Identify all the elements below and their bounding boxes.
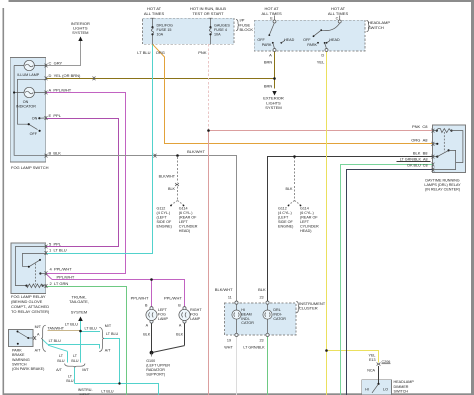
svg-text:LEFT: LEFT: [300, 220, 310, 224]
svg-text:BLU: BLU: [57, 359, 65, 363]
svg-text:LT GRN/BLK: LT GRN/BLK: [243, 346, 265, 350]
svg-text:HI: HI: [365, 387, 369, 391]
svg-text:A/T: A/T: [56, 368, 62, 372]
svg-text:BLK: BLK: [143, 332, 151, 336]
svg-text:HEADLAMP: HEADLAMP: [394, 380, 415, 384]
svg-text:G112: G112: [157, 207, 166, 211]
svg-text:TEST OR START: TEST OR START: [192, 11, 224, 16]
svg-text:SYSTEM: SYSTEM: [71, 309, 87, 314]
svg-text:DAYTIME RUNNING: DAYTIME RUNNING: [425, 179, 459, 183]
svg-text:A/T: A/T: [35, 349, 41, 353]
svg-text:SIDE OF: SIDE OF: [278, 220, 293, 224]
svg-text:RADIATOR: RADIATOR: [146, 368, 165, 372]
svg-text:G114: G114: [179, 207, 188, 211]
svg-text:OFF: OFF: [30, 132, 38, 136]
svg-text:(6 CYL.): (6 CYL.): [300, 211, 314, 215]
svg-text:E PPL: E PPL: [49, 113, 62, 118]
svg-text:LT BLU: LT BLU: [49, 339, 61, 343]
svg-text:RIGHT: RIGHT: [190, 308, 202, 312]
svg-text:BLK/WHT: BLK/WHT: [215, 287, 233, 292]
svg-text:ENGINE): ENGINE): [157, 225, 172, 229]
svg-text:TAILGATE,: TAILGATE,: [69, 299, 89, 304]
svg-text:(REAR OF: (REAR OF: [300, 216, 318, 220]
svg-text:HEAD): HEAD): [300, 229, 311, 233]
svg-text:INSTRU-: INSTRU-: [78, 388, 94, 392]
svg-text:HEAD): HEAD): [179, 229, 190, 233]
svg-text:SIDE OF: SIDE OF: [157, 220, 172, 224]
svg-text:LT GRN/BLK A8: LT GRN/BLK A8: [400, 158, 428, 162]
svg-text:BLU: BLU: [66, 379, 74, 383]
svg-text:PARK: PARK: [262, 43, 272, 47]
svg-text:FUSE 15: FUSE 15: [157, 28, 172, 32]
svg-text:PPL/WHT: PPL/WHT: [131, 295, 149, 300]
svg-text:BRN: BRN: [264, 59, 273, 64]
svg-text:GAUGES: GAUGES: [214, 24, 230, 28]
svg-text:PARK: PARK: [12, 348, 22, 352]
svg-text:10A: 10A: [157, 33, 164, 37]
svg-text:LAMPS (DRL) RELAY: LAMPS (DRL) RELAY: [424, 183, 461, 187]
svg-text:BLK: BLK: [176, 332, 184, 336]
svg-text:WHT: WHT: [224, 346, 233, 350]
svg-text:M/T: M/T: [105, 324, 112, 328]
svg-text:CYLINDER: CYLINDER: [300, 225, 319, 229]
svg-text:CATOR: CATOR: [241, 321, 254, 325]
svg-text:BLK: BLK: [168, 187, 176, 191]
svg-text:M/T: M/T: [82, 368, 89, 372]
svg-text:PPL/WHT: PPL/WHT: [164, 295, 182, 300]
svg-text:LT BLU: LT BLU: [101, 389, 113, 393]
svg-text:BLK B8: BLK B8: [413, 150, 428, 155]
svg-text:CLUSTER: CLUSTER: [299, 306, 318, 311]
svg-text:YEL: YEL: [369, 353, 376, 357]
svg-text:11: 11: [228, 296, 232, 300]
svg-text:BRAKE: BRAKE: [12, 353, 25, 357]
svg-text:LAMP: LAMP: [190, 317, 201, 321]
svg-text:SYSTEM: SYSTEM: [265, 105, 281, 110]
svg-text:2 LT GRN: 2 LT GRN: [50, 281, 69, 286]
svg-text:10A: 10A: [214, 33, 221, 37]
svg-text:C GRY: C GRY: [49, 60, 63, 65]
svg-text:LO: LO: [383, 387, 388, 391]
svg-text:A/T: A/T: [105, 349, 111, 353]
svg-text:INDICATOR: INDICATOR: [16, 105, 36, 109]
svg-text:(LEFT: (LEFT: [278, 216, 289, 220]
svg-text:ENGINE): ENGINE): [278, 225, 293, 229]
svg-text:DIMMER: DIMMER: [394, 385, 409, 389]
svg-text:HEAD: HEAD: [329, 38, 340, 42]
svg-text:23: 23: [259, 296, 263, 300]
svg-text:LT BLU: LT BLU: [106, 332, 118, 336]
svg-text:WARNING: WARNING: [12, 358, 30, 362]
svg-text:YEL: YEL: [317, 59, 325, 64]
svg-text:ON: ON: [32, 117, 38, 121]
svg-text:ORG A8: ORG A8: [411, 138, 428, 143]
svg-text:BLK: BLK: [258, 287, 266, 292]
svg-text:LEFT: LEFT: [158, 308, 168, 312]
svg-text:SWITCH: SWITCH: [368, 25, 384, 30]
svg-text:SWITCH: SWITCH: [12, 363, 27, 367]
svg-text:FOG: FOG: [190, 313, 198, 317]
svg-text:BLU: BLU: [71, 359, 79, 363]
svg-text:PPL/WHT: PPL/WHT: [57, 274, 75, 279]
svg-text:A: A: [269, 53, 272, 58]
svg-text:G112: G112: [278, 207, 287, 211]
svg-text:OFF: OFF: [257, 38, 265, 42]
svg-text:23: 23: [259, 339, 263, 343]
svg-text:TO RELAY CENTER): TO RELAY CENTER): [11, 309, 50, 314]
svg-text:LAMP: LAMP: [158, 317, 169, 321]
svg-text:1 LT BLU: 1 LT BLU: [49, 248, 67, 253]
svg-text:BLK/WHT: BLK/WHT: [187, 149, 205, 154]
svg-text:CYLINDER: CYLINDER: [179, 225, 198, 229]
svg-text:(LEFT UPPER: (LEFT UPPER: [146, 363, 170, 367]
svg-text:G100: G100: [146, 359, 155, 363]
svg-text:BRN: BRN: [264, 84, 273, 89]
svg-text:ALL TIMES: ALL TIMES: [328, 11, 349, 16]
svg-text:(LEFT: (LEFT: [157, 216, 168, 220]
svg-text:(4 CYL.): (4 CYL.): [278, 211, 292, 215]
svg-text:ALL TIMES: ALL TIMES: [144, 11, 165, 16]
svg-text:FOG LAMP SWITCH: FOG LAMP SWITCH: [11, 165, 49, 170]
svg-text:FUSE 4: FUSE 4: [214, 28, 227, 32]
svg-text:NCA: NCA: [367, 369, 375, 373]
svg-text:LT BLU: LT BLU: [85, 327, 97, 331]
svg-text:4 PPL/WHT: 4 PPL/WHT: [50, 266, 73, 271]
svg-text:OFF: OFF: [303, 38, 311, 42]
svg-text:C: C: [336, 17, 339, 21]
svg-text:TAN/WHT: TAN/WHT: [48, 326, 65, 330]
svg-text:PNK: PNK: [198, 50, 207, 55]
svg-text:BLK/WHT: BLK/WHT: [159, 175, 176, 179]
svg-text:E13: E13: [369, 358, 376, 362]
svg-text:HEAD: HEAD: [284, 38, 295, 42]
svg-text:A PPL/WHT: A PPL/WHT: [49, 87, 72, 92]
svg-text:D YEL (OR BRN): D YEL (OR BRN): [49, 73, 82, 78]
svg-text:19: 19: [227, 339, 231, 343]
svg-text:FOG: FOG: [158, 313, 166, 317]
svg-text:SWITCH: SWITCH: [394, 389, 409, 393]
svg-text:LT BLU: LT BLU: [137, 50, 150, 55]
svg-text:SUPPORT): SUPPORT): [146, 372, 165, 376]
svg-text:PARK: PARK: [307, 43, 317, 47]
svg-text:DRL/FOG: DRL/FOG: [157, 24, 174, 28]
svg-text:(REAR OF: (REAR OF: [179, 216, 197, 220]
svg-text:(IN RELAY CENTER): (IN RELAY CENTER): [425, 188, 460, 192]
svg-text:M/T: M/T: [35, 325, 42, 329]
svg-text:5 PPL: 5 PPL: [49, 241, 62, 246]
svg-text:(6 CYL.): (6 CYL.): [179, 211, 193, 215]
svg-text:BLK: BLK: [286, 187, 294, 191]
svg-text:ILLUM LAMP: ILLUM LAMP: [17, 73, 39, 77]
svg-text:ORG: ORG: [156, 50, 165, 55]
svg-text:BLOCK: BLOCK: [240, 27, 254, 32]
svg-text:DK BLU C8: DK BLU C8: [407, 163, 427, 167]
svg-text:(4 CYL.): (4 CYL.): [157, 211, 171, 215]
svg-text:ON: ON: [23, 100, 29, 104]
svg-text:G114: G114: [300, 207, 309, 211]
svg-text:LT BLU: LT BLU: [65, 322, 78, 327]
svg-text:ALL TIMES: ALL TIMES: [261, 11, 282, 16]
svg-text:PNK C8: PNK C8: [412, 124, 428, 129]
svg-text:LEFT: LEFT: [179, 220, 189, 224]
svg-text:CATOR: CATOR: [273, 317, 286, 321]
svg-text:D: D: [321, 53, 324, 58]
svg-text:(ON PARK BRAKE): (ON PARK BRAKE): [12, 367, 44, 371]
svg-text:SYSTEM: SYSTEM: [72, 30, 88, 35]
svg-text:B BLK: B BLK: [49, 150, 62, 155]
